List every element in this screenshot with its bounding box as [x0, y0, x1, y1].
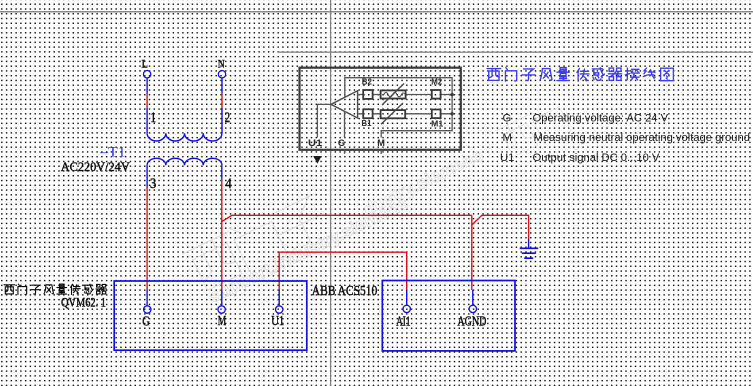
svg-text:G: G	[338, 138, 345, 148]
svg-text:2: 2	[225, 110, 231, 126]
svg-text:U1: U1	[308, 138, 322, 148]
svg-text:4: 4	[225, 176, 232, 192]
svg-text:3: 3	[150, 176, 157, 192]
svg-text:B2: B2	[362, 78, 373, 87]
svg-text:Measuring neutral operating vo: Measuring neutral operating voltage grou…	[534, 132, 750, 144]
svg-text:AI1: AI1	[396, 313, 410, 328]
svg-text:1: 1	[150, 110, 156, 126]
svg-text:B1: B1	[361, 119, 372, 128]
svg-text:U1: U1	[500, 152, 514, 164]
svg-text:M2: M2	[431, 77, 442, 86]
svg-text:ABB ACS510: ABB ACS510	[312, 283, 378, 298]
svg-text:U1: U1	[271, 313, 284, 328]
svg-text:AGND: AGND	[457, 313, 486, 328]
svg-text:M1: M1	[431, 119, 443, 128]
svg-text:M: M	[218, 313, 227, 328]
svg-text:AC220V/24V: AC220V/24V	[61, 160, 131, 174]
svg-text:G: G	[142, 313, 150, 328]
svg-text:QVM62. 1: QVM62. 1	[61, 295, 106, 309]
svg-text:M: M	[377, 138, 385, 148]
svg-text:N: N	[218, 56, 225, 70]
svg-text:L: L	[142, 56, 148, 70]
svg-text:Operating voltage: AC 24 V: Operating voltage: AC 24 V	[533, 113, 669, 125]
svg-text:G: G	[503, 113, 512, 125]
svg-text:Output signal DC 0...10 V: Output signal DC 0...10 V	[533, 152, 660, 164]
svg-text:M: M	[503, 132, 512, 144]
svg-text:–T1: –T1	[99, 145, 125, 161]
